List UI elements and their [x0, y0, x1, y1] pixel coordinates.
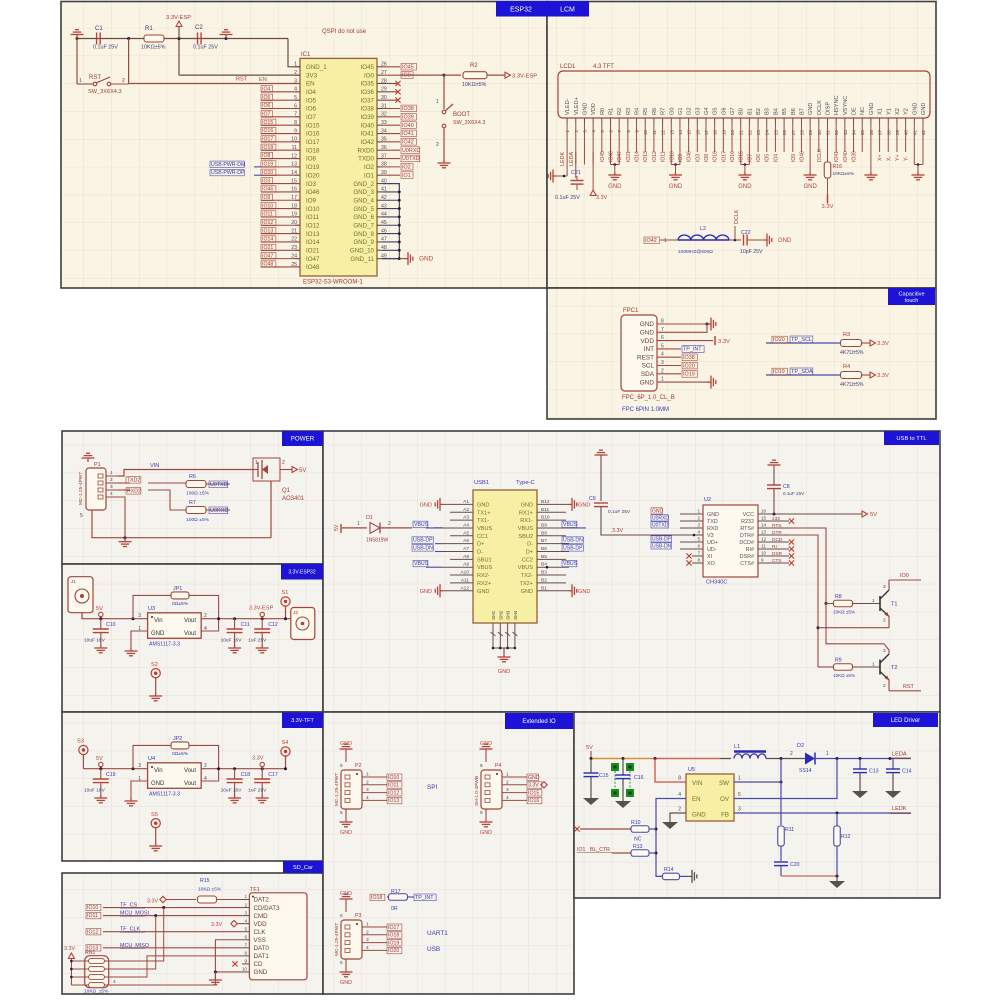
svg-text:GND_5: GND_5	[353, 206, 374, 213]
svg-text:IO8: IO8	[262, 153, 270, 159]
svg-text:IO14: IO14	[306, 239, 320, 246]
svg-text:IO2: IO2	[402, 164, 411, 170]
svg-text:3: 3	[738, 807, 741, 813]
svg-text:RN1: RN1	[85, 950, 95, 956]
svg-text:IO7: IO7	[747, 154, 753, 162]
svg-text:4: 4	[113, 979, 116, 985]
svg-text:SH3: SH3	[506, 610, 512, 620]
svg-text:IO18: IO18	[713, 151, 719, 162]
svg-text:IO10: IO10	[87, 905, 98, 911]
svg-text:9: 9	[761, 558, 764, 563]
svg-text:VBUS: VBUS	[518, 565, 534, 571]
svg-text:8: 8	[678, 776, 681, 782]
svg-text:1: 1	[79, 78, 82, 84]
svg-text:2: 2	[282, 460, 285, 466]
svg-text:IO47: IO47	[306, 256, 320, 263]
svg-text:IO11: IO11	[262, 212, 273, 218]
svg-text:13: 13	[761, 530, 767, 535]
svg-text:IO21: IO21	[262, 245, 273, 251]
svg-text:1: 1	[436, 99, 439, 105]
svg-text:3: 3	[110, 484, 113, 490]
svg-text:10: 10	[242, 967, 248, 972]
svg-text:R3: R3	[626, 108, 632, 115]
svg-text:IO39: IO39	[852, 151, 858, 162]
svg-text:TX1+: TX1+	[477, 510, 491, 516]
svg-text:Q1: Q1	[282, 488, 291, 494]
svg-text:IO14: IO14	[635, 151, 641, 162]
svg-text:GND: GND	[808, 103, 814, 115]
svg-text:IO11: IO11	[661, 151, 667, 162]
svg-text:S5: S5	[151, 812, 158, 818]
svg-text:DSR: DSR	[772, 551, 783, 557]
svg-text:1N5819W: 1N5819W	[366, 538, 389, 544]
svg-text:IO40: IO40	[843, 151, 849, 162]
svg-text:IO46: IO46	[306, 189, 320, 196]
svg-text:GND: GND	[582, 103, 588, 115]
svg-text:IO20: IO20	[683, 363, 695, 369]
svg-text:C20: C20	[790, 862, 800, 868]
svg-text:3: 3	[138, 763, 141, 769]
svg-text:Y1: Y1	[886, 108, 892, 115]
svg-text:R6: R6	[652, 108, 658, 115]
svg-text:LEDK: LEDK	[892, 806, 907, 812]
svg-text:IO19: IO19	[773, 369, 785, 375]
svg-text:L1: L1	[734, 744, 740, 750]
svg-text:FPC 6PIN 1.0MM: FPC 6PIN 1.0MM	[622, 407, 669, 413]
svg-text:G1: G1	[678, 108, 684, 115]
svg-text:Capacitive: Capacitive	[898, 292, 924, 298]
svg-text:6: 6	[340, 913, 343, 919]
svg-text:JP2: JP2	[173, 736, 182, 742]
svg-text:232: 232	[772, 516, 780, 522]
svg-text:1: 1	[697, 509, 700, 514]
svg-text:IO20: IO20	[773, 337, 785, 343]
svg-text:R6: R6	[189, 474, 196, 480]
svg-text:IO11: IO11	[388, 783, 399, 789]
svg-text:IO11: IO11	[87, 913, 98, 919]
svg-text:CD/DAT3: CD/DAT3	[254, 905, 281, 912]
svg-text:1: 1	[872, 598, 875, 604]
svg-text:X1: X1	[878, 108, 884, 115]
svg-text:USB to TTL: USB to TTL	[896, 436, 927, 442]
svg-text:DISP: DISP	[826, 102, 832, 115]
svg-text:GND_11: GND_11	[350, 256, 374, 263]
svg-text:CTS: CTS	[772, 558, 782, 564]
svg-text:IO19: IO19	[262, 162, 273, 168]
svg-text:3.3V: 3.3V	[596, 195, 607, 201]
svg-text:VBUS: VBUS	[477, 565, 493, 571]
svg-text:5: 5	[80, 513, 83, 519]
svg-text:G0: G0	[669, 108, 675, 115]
svg-text:C22: C22	[741, 230, 751, 236]
svg-text:GND: GND	[578, 502, 590, 508]
svg-text:R1: R1	[609, 108, 615, 115]
svg-text:4: 4	[697, 530, 700, 535]
svg-text:GND: GND	[480, 741, 492, 747]
svg-text:GND: GND	[480, 830, 492, 836]
svg-text:BOOT: BOOT	[453, 112, 470, 118]
svg-text:3.3V-ESP: 3.3V-ESP	[166, 15, 191, 21]
svg-text:AMS1117-3.3: AMS1117-3.3	[149, 642, 180, 648]
svg-text:R7: R7	[661, 108, 667, 115]
svg-text:IO45: IO45	[402, 64, 414, 70]
svg-text:RST: RST	[903, 684, 914, 690]
svg-text:SW_3X6X4.3: SW_3X6X4.3	[88, 89, 122, 95]
svg-text:IO1: IO1	[402, 173, 411, 179]
svg-text:IC1: IC1	[301, 52, 311, 58]
svg-text:2: 2	[790, 751, 793, 757]
svg-text:1: 1	[738, 776, 741, 782]
svg-text:6: 6	[340, 763, 343, 769]
svg-text:3.3V-TFT: 3.3V-TFT	[291, 718, 314, 724]
svg-text:IO20: IO20	[306, 172, 320, 179]
svg-text:SW_3X6X4.3: SW_3X6X4.3	[453, 120, 485, 126]
svg-text:4: 4	[110, 491, 113, 497]
svg-text:X+: X+	[878, 155, 884, 162]
svg-text:GND: GND	[803, 184, 817, 190]
svg-text:U0RXD: U0RXD	[210, 508, 228, 514]
svg-text:10KΩ ±5%: 10KΩ ±5%	[833, 610, 855, 615]
svg-text:3.3V-ESP: 3.3V-ESP	[249, 606, 274, 612]
svg-text:Y2: Y2	[904, 108, 910, 115]
svg-text:3.3V: 3.3V	[528, 783, 539, 789]
svg-text:1uF 25V: 1uF 25V	[248, 638, 267, 644]
svg-text:R3: R3	[843, 332, 850, 338]
svg-text:Vin: Vin	[154, 618, 163, 624]
svg-text:Vout: Vout	[184, 631, 196, 637]
svg-text:8: 8	[697, 558, 700, 563]
svg-text:0.1uF 25V: 0.1uF 25V	[608, 509, 631, 515]
svg-text:IO45: IO45	[600, 151, 606, 162]
svg-text:IO12: IO12	[262, 220, 273, 226]
svg-text:SBU2: SBU2	[518, 534, 533, 540]
svg-text:D2: D2	[797, 743, 804, 749]
svg-text:P1: P1	[94, 462, 101, 468]
svg-text:R1: R1	[145, 26, 153, 32]
svg-text:GND_10: GND_10	[350, 247, 375, 254]
svg-text:DSR#: DSR#	[740, 554, 754, 560]
svg-text:C18: C18	[241, 772, 251, 778]
svg-text:IO6: IO6	[262, 103, 270, 109]
svg-text:0.1uF 25V: 0.1uF 25V	[193, 45, 218, 51]
svg-text:5V: 5V	[334, 524, 340, 531]
svg-text:S2: S2	[151, 662, 158, 668]
svg-text:3.3V: 3.3V	[877, 341, 889, 347]
svg-text:ESP32: ESP32	[510, 6, 532, 13]
svg-text:R10: R10	[631, 820, 641, 826]
svg-text:EN: EN	[692, 796, 701, 803]
svg-text:7: 7	[697, 551, 700, 556]
svg-text:S3: S3	[77, 739, 84, 745]
svg-text:IO10: IO10	[306, 206, 320, 213]
svg-text:0R: 0R	[391, 906, 398, 912]
svg-text:IO10: IO10	[669, 151, 675, 162]
svg-text:G7: G7	[730, 108, 736, 115]
svg-text:IO10: IO10	[388, 775, 399, 781]
svg-text:100Ω ±5%: 100Ω ±5%	[186, 517, 210, 523]
svg-text:C14: C14	[902, 769, 912, 775]
svg-text:VBUS: VBUS	[563, 522, 578, 528]
svg-text:GND: GND	[477, 589, 489, 595]
svg-text:7: 7	[244, 943, 247, 948]
svg-text:RX1-: RX1-	[520, 518, 533, 524]
svg-text:USB1: USB1	[474, 480, 489, 486]
svg-text:IO10: IO10	[262, 203, 273, 209]
svg-text:IO14: IO14	[262, 237, 273, 243]
svg-text:VBUS: VBUS	[518, 526, 534, 532]
svg-text:2: 2	[436, 142, 439, 148]
svg-text:DCD: DCD	[772, 537, 783, 543]
svg-text:6: 6	[697, 544, 700, 549]
svg-text:IO38: IO38	[361, 106, 375, 113]
svg-text:GND: GND	[420, 589, 432, 595]
svg-text:10KΩ±5%: 10KΩ±5%	[462, 82, 487, 88]
svg-text:IO20: IO20	[262, 170, 273, 176]
svg-text:R5: R5	[643, 108, 649, 115]
svg-text:C9: C9	[589, 496, 596, 502]
svg-text:OV: OV	[720, 796, 730, 803]
svg-text:DTR#: DTR#	[740, 533, 754, 539]
svg-text:GND: GND	[669, 184, 683, 190]
svg-text:U0TXD: U0TXD	[652, 522, 669, 528]
svg-text:1: 1	[664, 238, 667, 244]
svg-text:GND: GND	[340, 741, 352, 747]
svg-text:RXD0: RXD0	[357, 147, 374, 154]
svg-text:2: 2	[883, 618, 886, 624]
svg-text:G3: G3	[695, 108, 701, 115]
svg-text:Vout: Vout	[184, 618, 196, 624]
svg-text:USB-DN: USB-DN	[563, 538, 583, 544]
svg-text:GND: GND	[420, 502, 432, 508]
svg-text:NC: NC	[860, 107, 866, 115]
svg-text:IO0: IO0	[900, 573, 909, 579]
svg-text:15: 15	[761, 516, 767, 521]
svg-text:C2: C2	[195, 25, 203, 31]
svg-text:10KΩ ±5%: 10KΩ ±5%	[833, 673, 855, 678]
svg-text:VBUS: VBUS	[414, 522, 429, 528]
svg-text:IO16: IO16	[262, 128, 273, 134]
svg-text:10pF 25V: 10pF 25V	[740, 249, 763, 255]
svg-text:IO2: IO2	[364, 164, 375, 171]
svg-text:10KΩ±5%: 10KΩ±5%	[833, 171, 855, 177]
svg-text:IO48: IO48	[306, 264, 320, 271]
svg-text:R14: R14	[664, 867, 674, 873]
svg-text:RXD2: RXD2	[127, 489, 141, 495]
svg-text:IO41: IO41	[834, 151, 840, 162]
svg-text:5V: 5V	[299, 468, 306, 474]
svg-text:G4: G4	[704, 108, 710, 115]
svg-text:B6: B6	[791, 108, 797, 115]
svg-text:5V: 5V	[586, 745, 593, 751]
svg-text:S1: S1	[282, 590, 289, 596]
svg-text:ESP32-S3-WROOM-1: ESP32-S3-WROOM-1	[303, 280, 363, 286]
svg-text:IO4: IO4	[262, 87, 270, 93]
svg-text:INT: INT	[644, 346, 654, 353]
svg-text:SDA: SDA	[641, 371, 655, 378]
svg-text:D-: D-	[477, 550, 483, 556]
svg-text:C13: C13	[869, 769, 879, 775]
svg-text:GND: GND	[912, 103, 918, 115]
svg-text:TXD2: TXD2	[127, 478, 140, 484]
svg-text:C16: C16	[634, 775, 644, 781]
svg-text:3V3: 3V3	[306, 72, 318, 79]
svg-text:C1: C1	[95, 26, 103, 32]
svg-text:RI#: RI#	[746, 547, 754, 553]
svg-text:JP1: JP1	[173, 586, 182, 592]
svg-text:R12: R12	[841, 834, 851, 840]
svg-text:SH1: SH1	[491, 610, 497, 620]
svg-text:TXD0: TXD0	[358, 156, 374, 163]
svg-text:4K7Ω±5%: 4K7Ω±5%	[840, 350, 864, 356]
svg-text:U5: U5	[688, 767, 695, 773]
svg-text:GND: GND	[151, 631, 165, 637]
svg-text:IO18: IO18	[388, 933, 399, 939]
svg-text:GND: GND	[778, 238, 792, 244]
svg-text:IO13: IO13	[643, 151, 649, 162]
svg-text:IO18: IO18	[262, 145, 273, 151]
svg-text:IO12: IO12	[388, 790, 399, 796]
svg-text:IO6: IO6	[306, 106, 317, 113]
svg-text:RX2+: RX2+	[477, 581, 491, 587]
svg-text:IO19: IO19	[683, 372, 695, 378]
svg-text:IO13: IO13	[388, 798, 399, 804]
svg-text:IO46: IO46	[687, 151, 693, 162]
svg-text:SS14: SS14	[799, 768, 812, 774]
svg-text:IO15: IO15	[739, 151, 745, 162]
svg-text:C21: C21	[571, 170, 581, 176]
svg-text:100MHZ@600Ω: 100MHZ@600Ω	[678, 249, 713, 255]
svg-text:V3: V3	[707, 533, 714, 539]
svg-text:IO39: IO39	[361, 114, 375, 121]
svg-text:GND: GND	[640, 379, 655, 386]
svg-text:IO21: IO21	[626, 151, 632, 162]
svg-text:IO3: IO3	[695, 154, 701, 162]
svg-text:0.1uF 25V: 0.1uF 25V	[93, 45, 118, 51]
svg-text:GND: GND	[578, 589, 590, 595]
svg-text:GND: GND	[528, 775, 540, 781]
svg-text:RST: RST	[89, 75, 101, 81]
svg-text:R15: R15	[200, 878, 210, 884]
svg-text:5: 5	[340, 810, 343, 816]
svg-text:GND: GND	[340, 980, 352, 986]
svg-text:IO42: IO42	[402, 139, 414, 145]
svg-text:B3: B3	[765, 108, 771, 115]
svg-text:IO3: IO3	[306, 181, 317, 188]
svg-text:IO40: IO40	[361, 122, 375, 129]
svg-text:3: 3	[883, 584, 886, 590]
svg-text:IO13: IO13	[306, 231, 320, 238]
svg-text:IO0: IO0	[364, 72, 375, 79]
svg-text:UD-: UD-	[707, 547, 717, 553]
svg-text:IO9: IO9	[678, 154, 684, 162]
svg-text:SH-1.0-4PWB: SH-1.0-4PWB	[474, 776, 480, 806]
svg-text:3: 3	[697, 523, 700, 528]
svg-text:10: 10	[761, 551, 767, 556]
svg-text:IO20: IO20	[388, 948, 399, 954]
svg-text:2: 2	[678, 807, 681, 813]
svg-text:GND: GND	[498, 669, 510, 675]
svg-text:3.3V: 3.3V	[877, 373, 889, 379]
svg-text:GND: GND	[340, 891, 352, 897]
svg-text:3.3V-ESP: 3.3V-ESP	[512, 74, 537, 80]
svg-text:USB-PWR-DM: USB-PWR-DM	[211, 162, 245, 168]
svg-text:VLED+: VLED+	[574, 97, 580, 115]
svg-text:IO38: IO38	[402, 106, 414, 112]
svg-text:GND: GND	[521, 589, 533, 595]
svg-text:VDD: VDD	[591, 103, 597, 115]
svg-text:G6: G6	[721, 108, 727, 115]
svg-text:T1: T1	[891, 602, 898, 608]
svg-text:Y-: Y-	[904, 156, 910, 161]
svg-text:VIN: VIN	[692, 780, 702, 787]
svg-text:VDD: VDD	[254, 921, 268, 928]
svg-text:14: 14	[761, 523, 767, 528]
svg-text:GND: GND	[869, 103, 875, 115]
svg-text:5: 5	[244, 926, 247, 931]
svg-text:X2: X2	[895, 108, 901, 115]
svg-text:5V: 5V	[96, 756, 103, 762]
svg-text:3.3V: 3.3V	[612, 528, 623, 534]
svg-text:3.3V: 3.3V	[64, 946, 75, 952]
svg-text:B7: B7	[799, 108, 805, 115]
svg-text:R16: R16	[833, 164, 843, 170]
svg-text:R8: R8	[835, 594, 842, 600]
svg-text:8: 8	[244, 951, 247, 956]
svg-text:P4: P4	[495, 763, 501, 769]
svg-text:10uF 16V: 10uF 16V	[84, 638, 106, 644]
svg-text:10uF 16V: 10uF 16V	[221, 788, 243, 794]
svg-text:C19: C19	[106, 772, 116, 778]
svg-text:IO7: IO7	[262, 112, 270, 118]
svg-text:GND_8: GND_8	[353, 231, 374, 238]
svg-text:GND: GND	[640, 330, 655, 337]
svg-text:POWER: POWER	[291, 436, 315, 443]
svg-text:VDD: VDD	[641, 338, 655, 345]
svg-text:REST: REST	[637, 354, 654, 361]
svg-text:AO3401: AO3401	[282, 496, 305, 502]
svg-text:R9: R9	[835, 658, 842, 664]
svg-text:UD+: UD+	[707, 540, 718, 546]
svg-text:VSS: VSS	[254, 937, 266, 944]
svg-text:3: 3	[138, 613, 141, 619]
svg-text:C15: C15	[599, 773, 609, 779]
svg-text:10uF 16V: 10uF 16V	[84, 788, 106, 794]
svg-text:B5: B5	[782, 108, 788, 115]
svg-text:IO46: IO46	[262, 187, 273, 193]
svg-text:IO41: IO41	[361, 131, 375, 138]
svg-text:3: 3	[883, 648, 886, 654]
svg-text:GND_9: GND_9	[353, 239, 374, 246]
svg-text:IO35: IO35	[361, 81, 375, 88]
svg-text:VLED-: VLED-	[565, 98, 571, 115]
svg-text:TP_SDA: TP_SDA	[791, 369, 813, 375]
svg-text:2: 2	[697, 516, 700, 521]
svg-text:IO5: IO5	[262, 95, 270, 101]
svg-text:IO40: IO40	[402, 123, 414, 129]
svg-text:GND_2: GND_2	[353, 181, 374, 188]
svg-text:IO9: IO9	[262, 195, 270, 201]
svg-text:MC-1.25-4PWT: MC-1.25-4PWT	[334, 923, 340, 956]
svg-text:2: 2	[204, 763, 207, 769]
svg-text:SCL: SCL	[642, 363, 655, 370]
svg-text:GND: GND	[707, 512, 719, 518]
svg-text:T2: T2	[891, 665, 898, 671]
svg-text:D-: D-	[527, 542, 533, 548]
svg-text:5V: 5V	[96, 606, 103, 612]
svg-text:LCM: LCM	[560, 6, 575, 13]
svg-text:R13: R13	[633, 844, 643, 850]
svg-text:GND_6: GND_6	[353, 214, 374, 221]
